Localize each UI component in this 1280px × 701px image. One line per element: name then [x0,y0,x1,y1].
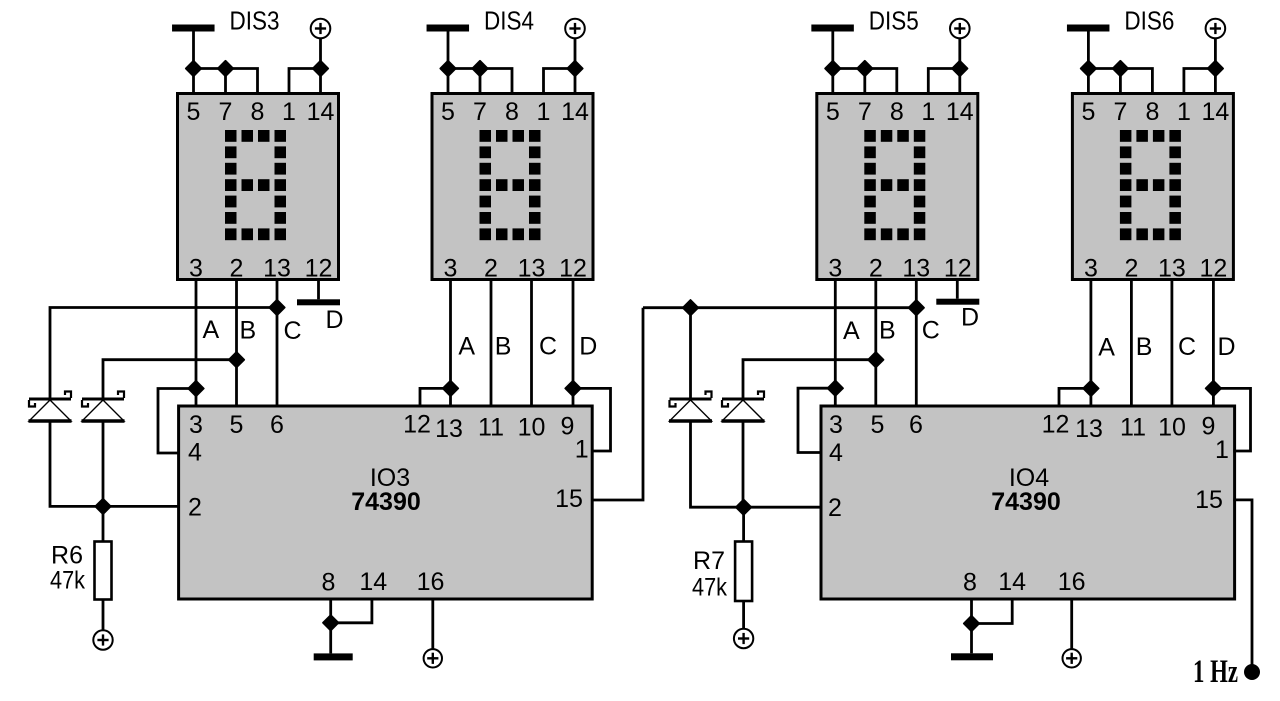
svg-text:DIS3: DIS3 [230,6,280,36]
junction (pin 7 net, DIS4) [472,61,487,76]
diode D1 [29,392,72,422]
svg-text:16: 16 [1058,568,1086,596]
ground (DIS5 pin 12) [936,299,979,305]
svg-text:B: B [495,333,512,361]
wire: A node loop to IO3 pin 4 [158,389,196,454]
wire: R7 to +V [742,601,745,630]
wire: A-node loop to IO4 pin 12 [1059,388,1091,406]
svg-text:47k: 47k [692,574,727,602]
ground (top of DIS4) [427,25,470,32]
svg-text:11: 11 [1120,414,1146,442]
wire: IO4 pin 8 to ground [970,599,973,653]
wire: DIS5 pin 13 (C) to IO4 pin 6 [915,280,918,407]
junction (IO3 pins 8/14) [323,615,338,630]
+V supply (top of DIS6) [1206,19,1226,39]
junction (pin 14 net, DIS6) [1208,61,1223,76]
svg-text:D: D [961,304,979,332]
wire: DIS4 pin 13 (C) to IO3 pin 10 [530,280,533,407]
wire: pin 7 stub of DIS4 [479,69,482,94]
ground (top of DIS6) [1067,25,1110,32]
svg-text:R7: R7 [693,547,725,575]
wire: IO3 pin 14 to pin 8 net [331,599,372,623]
wire: dot14 to pin 1 of DIS6 [1184,69,1216,94]
wire: DIS4 pin 3 (A) to IO3 pin 13 [449,280,452,407]
wire: D-node loop to IO4 pin 1 [1213,388,1250,451]
junction (pin 5 net, DIS6) [1081,61,1096,76]
wire: IO4 pin 14 to pin 8 net [972,599,1013,624]
wire: R6 node to R6 [102,506,105,541]
wire: DIS3 pin 3 (A) to IO3 pin 3 [195,280,198,407]
resistor R7 [735,542,752,602]
svg-text:DIS4: DIS4 [484,6,534,36]
junction (pin 7 net, DIS5) [857,61,872,76]
wire: dot7 to pin 8 of DIS5 [865,69,897,94]
wire: A-node loop to IO3 pin 12 [420,388,451,406]
svg-text:C: C [1178,333,1196,361]
wire: +V to pin 14 of DIS6 [1214,38,1217,94]
wire: pin 7 stub of DIS5 [863,69,866,94]
wire: dot5 to dot7 of DIS3 [194,67,226,70]
wire: ground to pin 5 of DIS6 [1087,31,1090,94]
wire: DIS3 pin 13 (C) to IO3 pin 6 [276,280,279,407]
svg-text:2: 2 [188,494,202,522]
ground (DIS3 pin 12) [297,299,340,305]
svg-text:B: B [879,317,896,345]
svg-text:2: 2 [828,494,842,522]
junction (pin 7 net, DIS6) [1113,61,1128,76]
svg-text:9: 9 [561,413,575,441]
junction (A net DIS6) [1083,381,1098,396]
junction (R6 node) [95,499,110,514]
junction (pin 7 net, DIS3) [218,61,233,76]
svg-text:10: 10 [1158,414,1186,442]
junction (A net DIS5) [828,381,843,396]
wire: DIS6 pin 3 (A) to IO4 pin 13 [1090,280,1093,407]
wire: clock bus to diode D3 [689,308,692,399]
wire: clock bus (IO3 pin 15 to DIS5 C net) [643,306,916,309]
wire: DIS5 pin 12 (D) to ground [956,280,959,299]
svg-text:DIS6: DIS6 [1124,6,1174,36]
svg-text:13: 13 [1075,415,1103,443]
svg-text:A: A [1098,334,1115,362]
svg-text:6: 6 [909,411,923,439]
wire: dot7 to pin 8 of DIS6 [1120,69,1152,94]
junction (IO4 pins 8/14) [964,616,979,631]
wire: dot5 to dot7 of DIS4 [448,67,480,70]
7-segment display DIS4 [432,94,593,283]
wire: DIS5 pin 2 (B) to IO4 pin 5 [874,280,877,407]
wire: IO4 pin 15 to 1 Hz node [1233,500,1252,672]
svg-text:1 Hz: 1 Hz [1193,654,1238,690]
+V supply (R7) [734,629,753,648]
junction (A net DIS3) [188,381,203,396]
svg-text:4: 4 [188,439,202,467]
wire: DIS4 pin 2 (B) to IO3 pin 11 [490,280,493,407]
diode D2 [82,392,125,422]
7-segment display DIS3 [178,94,339,283]
wire: ground to pin 5 of DIS5 [831,31,834,94]
svg-text:47k: 47k [50,567,85,595]
wire: B node to diode D2 [103,360,237,399]
svg-text:DIS5: DIS5 [869,6,919,36]
junction (pin 14 net, DIS4) [567,61,582,76]
svg-text:15: 15 [1195,486,1223,514]
junction (B net DIS5) [868,352,883,367]
resistor R6 [95,542,112,600]
junction (B net DIS3) [229,352,244,367]
7-segment display DIS5 [817,94,978,283]
svg-text:A: A [458,333,475,361]
svg-text:R6: R6 [51,542,83,570]
counter IC IO4 74390 [821,406,1235,599]
wire: DIS5 pin 3 (A) to IO4 pin 3 [834,280,837,407]
svg-text:74390: 74390 [991,488,1061,516]
ground (IO3 pin 8) [314,653,353,660]
svg-text:3: 3 [189,411,203,439]
wire: diode D2 anode to R6 node [102,421,105,507]
ground (top of DIS3) [172,25,215,32]
+V supply (top of DIS4) [565,19,585,39]
ground (IO4 pin 8) [951,653,993,660]
wire: diode D3 anode to IO4 pin 2 [691,421,822,508]
wire: DIS3 pin 12 (D) to ground [317,280,320,300]
wire: DIS6 pin 13 (C) to IO4 pin 10 [1171,280,1174,407]
wire: +V to pin 14 of DIS5 [958,38,961,94]
junction (D net DIS6) [1206,381,1221,396]
diode D4 [722,392,765,422]
svg-text:A: A [843,317,860,345]
junction (pin 5 net, DIS5) [825,61,840,76]
wire: pin 7 stub of DIS6 [1119,69,1122,94]
svg-text:5: 5 [230,411,244,439]
junction (C net DIS5) [909,300,924,315]
wire: +V to pin 14 of DIS3 [319,38,322,94]
svg-text:B: B [1136,333,1153,361]
+V supply (IO3 pin 16) [424,649,442,667]
wire: ground to pin 5 of DIS4 [447,31,450,94]
node 1 Hz [1244,664,1260,680]
svg-text:1: 1 [575,436,589,464]
svg-text:C: C [284,317,302,345]
svg-text:1: 1 [1215,436,1229,464]
svg-text:14: 14 [359,568,387,596]
svg-text:6: 6 [270,411,284,439]
junction (pin 14 net, DIS5) [952,61,967,76]
wire: DIS3 pin 2 (B) to IO3 pin 5 [235,280,238,407]
svg-text:A: A [203,316,220,344]
wire: D-node loop to IO3 pin 1 [573,388,611,451]
junction (pin 5 net, DIS4) [440,61,455,76]
svg-text:D: D [579,333,597,361]
wire: +V to pin 14 of DIS4 [574,38,577,94]
+V supply (top of DIS3) [311,19,331,39]
junction (pin 5 net, DIS3) [186,61,201,76]
svg-text:4: 4 [829,439,843,467]
wire: dot5 to dot7 of DIS5 [833,67,865,70]
junction (A net DIS4) [443,381,458,396]
wire: dot14 to pin 1 of DIS3 [289,69,321,94]
wire: diode D4 anode to R7 node [742,421,745,508]
wire: R6 to +V [102,600,105,632]
wire: C bus to diode D1 [50,308,277,400]
wire: dot7 to pin 8 of DIS4 [480,69,512,94]
junction (clock bus at D3) [683,300,698,315]
junction (D net DIS4) [565,381,580,396]
junction (R7 node) [736,500,751,515]
wire: DIS4 pin 12 (D) to IO3 pin 9 [572,280,575,407]
wire: dot5 to dot7 of DIS6 [1088,67,1120,70]
counter IC IO3 74390 [179,406,593,599]
wire: R7 node to R7 [742,507,745,541]
wire: DIS6 pin 12 (D) to IO4 pin 9 [1212,280,1215,407]
wire: IO4 pin 16 to +V [1070,599,1073,649]
wire: IO3 pin 15 to clock bus [592,308,643,500]
junction (pin 14 net, DIS3) [313,61,328,76]
wire: A node loop to IO4 pin 4 [798,388,835,452]
+V supply (R6) [93,630,112,649]
svg-text:12: 12 [403,411,431,439]
svg-text:10: 10 [518,414,546,442]
wire: dot14 to pin 1 of DIS5 [928,69,960,94]
svg-text:8: 8 [321,569,335,597]
svg-text:12: 12 [1042,411,1070,439]
svg-text:16: 16 [417,568,445,596]
svg-text:11: 11 [478,414,504,442]
diode D3 [669,392,712,422]
svg-text:D: D [326,306,344,334]
svg-text:8: 8 [963,569,977,597]
wire: IO3 pin 16 to +V [431,599,434,649]
wire: DIS6 pin 2 (B) to IO4 pin 11 [1130,280,1133,407]
svg-text:C: C [922,317,940,345]
7-segment display DIS6 [1072,94,1233,283]
svg-text:74390: 74390 [351,488,421,516]
svg-text:13: 13 [435,415,463,443]
wire: pin 7 stub of DIS3 [224,69,227,94]
+V supply (IO4 pin 16) [1063,649,1081,667]
ground (top of DIS5) [811,25,854,32]
wire: dot14 to pin 1 of DIS4 [544,69,576,94]
wire: ground to pin 5 of DIS3 [192,31,195,94]
svg-text:14: 14 [998,568,1026,596]
svg-text:9: 9 [1202,413,1216,441]
svg-text:C: C [539,333,557,361]
wire: diode D1 anode to IO3 pin 2 [50,421,179,507]
junction (C net DIS3) [269,300,284,315]
svg-text:D: D [1218,333,1236,361]
wire: dot7 to pin 8 of DIS3 [226,69,258,94]
svg-text:15: 15 [555,485,583,513]
svg-text:3: 3 [829,411,843,439]
wire: B node to diode D4 [743,360,876,399]
wire: IO3 pin 8 to ground [329,599,332,653]
svg-text:B: B [240,317,257,345]
svg-text:5: 5 [871,411,885,439]
+V supply (top of DIS5) [950,19,970,39]
